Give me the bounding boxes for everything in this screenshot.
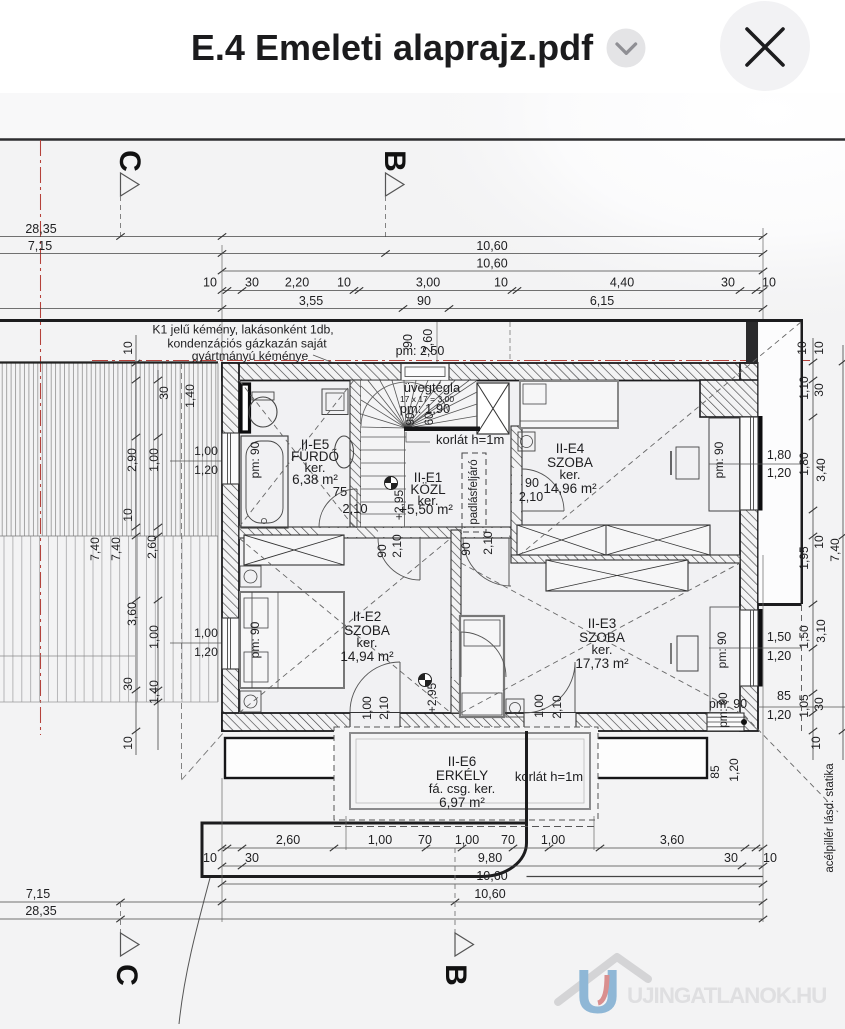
door II-E2 balcony — [350, 662, 400, 712]
lower roof plane hatching dense — [2, 364, 216, 537]
svg-text:K1 jelű kémény, lakásonként 1d: K1 jelű kémény, lakásonként 1db, — [152, 323, 333, 337]
svg-text:+2,95: +2,95 — [425, 682, 439, 713]
svg-text:10: 10 — [809, 736, 823, 750]
svg-text:1,95: 1,95 — [797, 546, 811, 570]
right exterior wall — [740, 363, 758, 731]
svg-text:14,94 m²: 14,94 m² — [340, 649, 394, 664]
svg-text:2,90: 2,90 — [125, 448, 139, 472]
ground floor outline — [202, 731, 527, 877]
svg-text:28,35: 28,35 — [25, 222, 56, 236]
bottom dim detail row — [222, 847, 763, 849]
terrace strip white fill — [759, 322, 801, 604]
drawing sheet top rule — [0, 138, 845, 141]
dimension row 3,55 / 90 / 6,15 top — [0, 308, 763, 310]
svg-text:1,40: 1,40 — [183, 384, 197, 408]
roof step outline — [181, 363, 183, 780]
svg-text:7,15: 7,15 — [28, 239, 52, 253]
svg-text:10: 10 — [763, 851, 777, 865]
svg-text:1,20: 1,20 — [767, 708, 791, 722]
svg-text:II-E2: II-E2 — [353, 609, 382, 624]
svg-text:II-E4: II-E4 — [556, 441, 585, 456]
svg-text:1,20: 1,20 — [727, 758, 741, 782]
wardrobe II-E2 — [244, 535, 344, 565]
door corridor to II-E4 — [522, 469, 564, 511]
svg-text:10: 10 — [203, 276, 217, 290]
washing machine — [322, 389, 348, 415]
bottom dim row 28,35 — [0, 918, 763, 920]
stair steps winder fan — [361, 381, 477, 528]
chevron button — [607, 29, 646, 68]
svg-text:1,20: 1,20 — [194, 463, 218, 477]
svg-text:padlásfeljáró: padlásfeljáró — [468, 459, 480, 524]
section flag B top — [386, 173, 405, 196]
svg-text:10: 10 — [812, 341, 826, 355]
svg-text:1,80: 1,80 — [767, 448, 791, 462]
left dimension chain line B — [157, 370, 159, 750]
svg-text:10,60: 10,60 — [476, 257, 507, 271]
svg-text:2,20: 2,20 — [285, 276, 309, 290]
watermark logo red stroke — [598, 975, 607, 1003]
window niche II-E3 — [710, 607, 740, 713]
svg-text:90: 90 — [459, 542, 473, 556]
svg-text:10: 10 — [795, 341, 809, 355]
svg-text:1,00: 1,00 — [455, 833, 479, 847]
svg-text:pm: 90: pm: 90 — [248, 621, 262, 658]
svg-text:6,97 m²: 6,97 m² — [439, 795, 485, 810]
roof projection dashed diagonals — [239, 322, 838, 812]
svg-text:7,40: 7,40 — [109, 537, 123, 561]
glass block window top wall — [401, 364, 449, 381]
chimney flue black — [241, 384, 250, 432]
svg-text:3,60: 3,60 — [125, 602, 139, 626]
section flag B bottom — [454, 848, 456, 935]
svg-text:1,50: 1,50 — [767, 630, 791, 644]
svg-text:1,00: 1,00 — [147, 625, 161, 649]
balcony lower dashed line — [334, 826, 598, 828]
desk II-E3 — [677, 636, 698, 671]
svg-text:1,20: 1,20 — [194, 645, 218, 659]
svg-text:pm: 90: pm: 90 — [248, 441, 262, 478]
toilet — [249, 397, 277, 427]
svg-text:üvegtégla: üvegtégla — [404, 380, 461, 395]
svg-text:E.4 Emeleti alaprajz.pdf: E.4 Emeleti alaprajz.pdf — [191, 27, 594, 68]
svg-text:7,15: 7,15 — [26, 887, 50, 901]
right wall upper extension — [746, 322, 758, 364]
svg-text:2,10: 2,10 — [390, 534, 404, 558]
dimension row 10,60 second top — [222, 270, 763, 272]
stair glass block column — [477, 383, 509, 434]
attic hatch dashed box — [462, 453, 486, 532]
left dimension chain line A — [135, 335, 137, 755]
svg-text:10: 10 — [494, 276, 508, 290]
svg-text:6,15: 6,15 — [590, 294, 614, 308]
svg-text:10: 10 — [121, 736, 135, 750]
dimension row 7,15 / 10,60 top — [0, 253, 763, 255]
svg-text:85: 85 — [708, 765, 722, 779]
svg-text:3,55: 3,55 — [299, 294, 323, 308]
washbasin — [335, 436, 354, 468]
svg-text:10,60: 10,60 — [474, 887, 505, 901]
section flag C top — [121, 173, 140, 196]
svg-text:B: B — [439, 964, 472, 986]
svg-text:30: 30 — [157, 386, 171, 400]
svg-text:1,00: 1,00 — [368, 833, 392, 847]
partition wall corridor vertical — [451, 530, 461, 713]
svg-text:3,10: 3,10 — [814, 619, 828, 643]
svg-text:gyártmányú kéménye: gyártmányú kéménye — [192, 349, 309, 363]
watermark logo roof — [558, 957, 648, 1002]
svg-text:14,96 m²: 14,96 m² — [543, 481, 597, 496]
stair walk line arc — [361, 382, 448, 426]
svg-text:ker.: ker. — [560, 467, 581, 482]
svg-text:7,40: 7,40 — [88, 537, 102, 561]
svg-text:90: 90 — [375, 544, 389, 558]
partition wall II-E4 II-E3 horizontal — [511, 555, 740, 563]
svg-text:90: 90 — [525, 476, 539, 490]
nightstand II-E2 lower — [240, 691, 261, 712]
svg-text:acélpillér lásd: statika: acélpillér lásd: statika — [824, 763, 836, 873]
bed II-E3 — [460, 616, 504, 717]
svg-text:9,80: 9,80 — [478, 851, 502, 865]
bathtub — [241, 436, 288, 528]
svg-text:C: C — [113, 150, 146, 172]
svg-text:60: 60 — [424, 413, 436, 426]
roof area bottom edge — [0, 701, 218, 703]
balcony door opening right — [524, 713, 576, 731]
bottom dim row 10,60 — [222, 883, 763, 885]
stair enclosure — [361, 381, 477, 428]
svg-text:3,60: 3,60 — [660, 833, 684, 847]
svg-text:1,40: 1,40 — [147, 680, 161, 704]
door II-E3 balcony — [524, 662, 575, 713]
svg-text:30: 30 — [245, 276, 259, 290]
svg-text:1,05: 1,05 — [797, 694, 811, 718]
door corridor KOZL to hall — [463, 538, 511, 586]
bottom extension lines — [221, 778, 223, 922]
partition wall bathroom and II-E2 horizontal — [239, 527, 511, 538]
svg-text:4,40: 4,40 — [610, 276, 634, 290]
svg-text:1,20: 1,20 — [767, 466, 791, 480]
nightstand II-E3 — [506, 699, 524, 717]
bed II-E4 — [520, 381, 618, 428]
svg-text:2,10: 2,10 — [550, 695, 564, 719]
svg-text:pm: 90: pm: 90 — [718, 692, 730, 727]
terrace strip right edge already drawn; bottom cap — [758, 603, 802, 606]
partition wall bathroom right — [350, 380, 361, 527]
svg-text:10: 10 — [121, 341, 135, 355]
nightstand II-E2 upper — [240, 566, 261, 587]
svg-text:30: 30 — [812, 383, 826, 397]
right dimension chain inner — [812, 338, 814, 760]
dimension detail row top — [222, 290, 763, 292]
svg-text:10: 10 — [762, 276, 776, 290]
desk II-E4 — [709, 418, 740, 511]
svg-text:1,00: 1,00 — [194, 444, 218, 458]
svg-text:2,10: 2,10 — [481, 531, 495, 555]
wardrobe II-E4 — [517, 525, 710, 555]
svg-text:2,10: 2,10 — [519, 490, 543, 504]
svg-text:B: B — [378, 150, 411, 172]
svg-text:70: 70 — [501, 833, 515, 847]
svg-text:pm: 90: pm: 90 — [712, 441, 726, 478]
partition wall II-E4 vertical — [511, 426, 522, 563]
roof area right edge — [217, 363, 219, 702]
svg-text:1,00: 1,00 — [532, 694, 546, 718]
roof area dim line — [0, 655, 135, 657]
building interior floor — [239, 380, 740, 713]
left exterior wall — [222, 363, 239, 731]
bottom dim row 7,15 10,60 — [0, 901, 763, 903]
balcony slab frame — [350, 733, 590, 809]
svg-text:UJINGATLANOK.HU: UJINGATLANOK.HU — [627, 983, 826, 1008]
chimney leader line — [313, 355, 331, 381]
extension line left building corner — [221, 245, 223, 363]
svg-text:30: 30 — [121, 677, 135, 691]
svg-text:1,00: 1,00 — [360, 696, 374, 720]
window left wall room II-E2 — [222, 618, 239, 669]
svg-text:II-E3: II-E3 — [588, 616, 617, 631]
svg-text:90: 90 — [405, 413, 417, 426]
svg-text:pm: 90: pm: 90 — [715, 631, 729, 668]
right wall pillar block — [700, 380, 758, 417]
viewer top bar — [0, 0, 845, 93]
stair steps straight flight — [361, 437, 406, 514]
svg-text:C: C — [110, 964, 143, 986]
door bathroom — [319, 489, 357, 527]
nightstand II-E4 — [518, 432, 535, 451]
svg-text:85: 85 — [777, 689, 791, 703]
red axis line horizontal — [92, 360, 812, 362]
svg-text:10: 10 — [812, 535, 826, 549]
roof area divider — [0, 535, 218, 537]
chair II-E4 — [676, 447, 699, 479]
right dimension chain outer — [842, 345, 844, 760]
svg-text:fá. csg. ker.: fá. csg. ker. — [429, 781, 495, 796]
svg-text:10,60: 10,60 — [476, 239, 507, 253]
parapet right — [584, 738, 707, 778]
svg-text:1,20: 1,20 — [767, 649, 791, 663]
svg-text:30: 30 — [812, 697, 826, 711]
svg-text:10: 10 — [203, 851, 217, 865]
svg-text:90: 90 — [417, 294, 431, 308]
svg-text:1,50: 1,50 — [797, 625, 811, 649]
svg-text:1,00: 1,00 — [194, 626, 218, 640]
svg-text:2,60: 2,60 — [145, 535, 159, 559]
svg-text:+5,50 m²: +5,50 m² — [399, 502, 453, 517]
svg-text:10: 10 — [121, 508, 135, 522]
level marker balcony — [393, 755, 406, 768]
svg-text:10: 10 — [337, 276, 351, 290]
red axis line vertical — [40, 140, 42, 735]
section flag C bottom — [120, 902, 122, 935]
site outline upper edge — [0, 321, 802, 605]
svg-text:7,40: 7,40 — [828, 538, 842, 562]
svg-text:30: 30 — [245, 851, 259, 865]
roof area top edge — [0, 361, 218, 363]
door corridor to II-E2 — [378, 538, 420, 580]
balcony door opening left — [350, 713, 400, 731]
balcony dashed outline — [334, 727, 598, 820]
wardrobe II-E3 — [546, 560, 688, 591]
svg-text:2,10: 2,10 — [377, 696, 391, 720]
svg-text:1,00: 1,00 — [147, 448, 161, 472]
svg-text:korlát h=1m: korlát h=1m — [436, 432, 504, 447]
level marker corridor — [385, 477, 398, 490]
dimension row 28,35 top — [0, 236, 763, 238]
svg-text:3,00: 3,00 — [416, 276, 440, 290]
svg-text:ker.: ker. — [357, 635, 378, 650]
svg-text:30: 30 — [721, 276, 735, 290]
svg-text:28,35: 28,35 — [25, 904, 56, 918]
svg-text:3,40: 3,40 — [814, 458, 828, 482]
window right wall room II-E4 — [740, 417, 758, 510]
svg-text:U: U — [576, 958, 621, 1024]
svg-text:30: 30 — [724, 851, 738, 865]
ground floor edge right — [527, 876, 764, 878]
bottom exterior wall — [222, 713, 744, 731]
svg-text:17,73 m²: 17,73 m² — [575, 656, 629, 671]
top exterior wall — [222, 363, 758, 381]
svg-text:10,60: 10,60 — [476, 869, 507, 883]
svg-text:1,10: 1,10 — [797, 376, 811, 400]
bed II-E2 — [240, 592, 344, 688]
window right wall room II-E3 — [740, 610, 758, 686]
close button — [720, 1, 810, 91]
level marker hallway — [419, 674, 432, 687]
bottom dim row 9,80 — [222, 865, 763, 867]
svg-text:2,10: 2,10 — [342, 501, 367, 516]
svg-text:6,38 m²: 6,38 m² — [292, 472, 338, 487]
extension line right building corner — [762, 228, 764, 363]
svg-text:II-E6: II-E6 — [448, 754, 477, 769]
stair railing bar — [404, 427, 480, 432]
door corridor to II-E3 — [461, 632, 506, 677]
parapet left — [225, 738, 346, 778]
svg-text:1,80: 1,80 — [797, 452, 811, 476]
window left wall bathroom — [222, 433, 239, 484]
lower roof plane hatching light — [4, 536, 218, 702]
site boundary arc bottom left — [179, 878, 210, 1024]
svg-text:ker.: ker. — [592, 642, 613, 657]
svg-text:2,60: 2,60 — [276, 833, 300, 847]
window bottom wall right — [707, 713, 744, 731]
